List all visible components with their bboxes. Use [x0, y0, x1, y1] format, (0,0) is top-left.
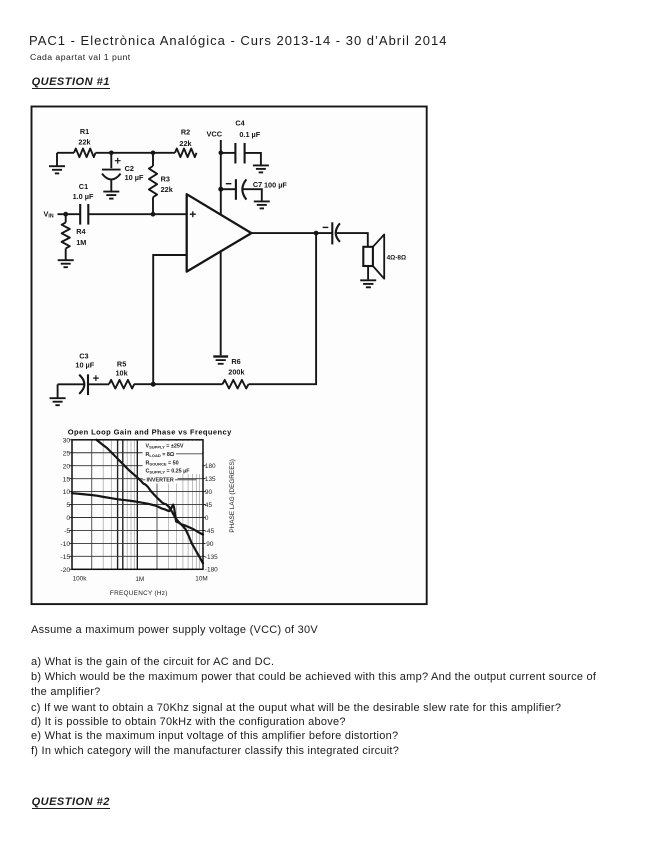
node J6 (feedback tap) [151, 382, 156, 387]
svg-text:135: 135 [205, 476, 216, 483]
svg-text:C4: C4 [235, 118, 245, 127]
svg-text:Open Loop Gain and Phase vs Fr: Open Loop Gain and Phase vs Frequency [68, 428, 232, 437]
svg-text:25: 25 [63, 450, 71, 457]
resistor R5 10k [109, 359, 134, 388]
phase axis labels [205, 463, 218, 574]
axis ticks [69, 440, 205, 570]
svg-text:RSOURCE = 50: RSOURCE = 50 [146, 460, 179, 466]
wire output [251, 232, 332, 234]
svg-text:-180: -180 [205, 567, 218, 574]
node J1 (R1/C2) [109, 151, 114, 156]
minor vertical gridlines [103, 440, 199, 570]
svg-text:R2: R2 [181, 128, 190, 137]
phase curve [72, 493, 203, 534]
svg-text:10: 10 [63, 489, 71, 496]
svg-text:100 µF: 100 µF [264, 180, 287, 189]
ground (R4) [58, 260, 74, 267]
wire VCC to op-amp top [220, 189, 222, 214]
ground (C4) [253, 165, 269, 172]
svg-text:C7: C7 [253, 180, 262, 189]
svg-text:10M: 10M [195, 575, 207, 582]
capacitor C1 1.0uF [73, 182, 94, 225]
capacitor C7 100uF [221, 179, 288, 201]
svg-text:10 µF: 10 µF [75, 360, 94, 369]
capacitor C4 0.1uF [221, 118, 261, 164]
ground (below C2) [103, 192, 119, 199]
svg-text:200k: 200k [228, 367, 245, 376]
wire top rail left [57, 152, 74, 154]
wire VCC rail down [220, 153, 222, 189]
svg-text:22k: 22k [179, 139, 192, 148]
resistor R6 200k [223, 357, 249, 389]
svg-text:4Ω-8Ω: 4Ω-8Ω [387, 254, 406, 261]
header title [29, 33, 447, 48]
body text [31, 624, 318, 636]
frequency axis labels [73, 575, 208, 583]
svg-text:0: 0 [66, 515, 70, 522]
node J5 (output) [314, 231, 319, 236]
speaker 4ohm-8ohm [363, 235, 406, 279]
resistor R1 [74, 127, 95, 157]
node J4 (+ input) [151, 212, 156, 217]
ground (C3) [50, 384, 66, 405]
svg-text:R1: R1 [80, 127, 89, 136]
svg-text:10k: 10k [116, 369, 129, 378]
svg-text:R4: R4 [76, 227, 86, 236]
svg-text:INVERTER: INVERTER [147, 478, 174, 484]
svg-text:R6: R6 [231, 357, 240, 366]
figure frame [32, 107, 427, 605]
wire op-amp ground pin [220, 252, 222, 356]
gain axis labels [60, 437, 70, 574]
svg-text:-20: -20 [60, 567, 70, 574]
svg-text:FREQUENCY (Hz): FREQUENCY (Hz) [110, 590, 168, 597]
capacitor C3 10uF [58, 351, 109, 395]
svg-text:100k: 100k [73, 575, 88, 582]
wire input row [88, 213, 186, 215]
svg-text:-10: -10 [60, 541, 70, 548]
resistor R3 22k [149, 153, 174, 214]
svg-text:22k: 22k [78, 137, 91, 146]
gain curve [96, 440, 203, 564]
capacitor output (coupling) [323, 222, 368, 247]
capacitor C2 10uF [102, 153, 144, 191]
svg-text:1M: 1M [135, 576, 144, 583]
ground (op-amp) [213, 357, 228, 364]
svg-text:-5: -5 [64, 528, 70, 535]
node J3 (bypass cap) [218, 187, 223, 192]
ground (C7) [254, 201, 270, 208]
svg-text:15: 15 [63, 476, 71, 483]
svg-text:-45: -45 [205, 528, 215, 535]
svg-text:5: 5 [66, 502, 70, 509]
wire feedback right [249, 233, 317, 384]
svg-text:1.0 µF: 1.0 µF [73, 192, 94, 201]
svg-text:20: 20 [63, 463, 71, 470]
svg-text:C1: C1 [79, 182, 88, 191]
ground (left of R1) [49, 153, 65, 174]
svg-text:R3: R3 [161, 175, 170, 184]
svg-text:1M: 1M [76, 238, 86, 247]
svg-text:VSUPPLY = ±25V: VSUPPLY = ±25V [146, 443, 184, 449]
ground (speaker) [360, 266, 376, 287]
svg-text:10 µF: 10 µF [125, 173, 144, 182]
node VIN [44, 210, 81, 220]
horizontal gridlines [72, 453, 203, 557]
svg-text:0: 0 [205, 515, 209, 522]
svg-text:180: 180 [205, 463, 216, 470]
plot frame [72, 440, 203, 570]
svg-text:-15: -15 [60, 554, 70, 561]
svg-text:PHASE LAG (DEGREES): PHASE LAG (DEGREES) [229, 459, 236, 533]
svg-text:CSUPPLY = 0.25 µF: CSUPPLY = 0.25 µF [146, 469, 191, 475]
svg-text:C2: C2 [125, 164, 134, 173]
svg-text:RLOAD = 8Ω: RLOAD = 8Ω [146, 452, 175, 458]
resistor R2 [175, 128, 197, 158]
svg-text:45: 45 [205, 502, 213, 509]
svg-text:90: 90 [206, 541, 214, 548]
legend box [143, 441, 203, 474]
svg-text:VCC: VCC [206, 129, 222, 138]
svg-text:C3: C3 [79, 351, 88, 360]
svg-text:R5: R5 [117, 359, 126, 368]
svg-text:-135: -135 [205, 554, 218, 561]
major gridline 1M [136, 440, 138, 570]
resistor R4 1M [62, 214, 87, 259]
op-amp U1 [187, 194, 252, 271]
wire bottom row middle [134, 383, 223, 385]
node VCC [206, 129, 223, 155]
svg-text:0.1 µF: 0.1 µF [239, 130, 260, 139]
svg-text:22k: 22k [161, 185, 174, 194]
wire top rail middle [96, 152, 176, 154]
node J2 (R3 top) [151, 151, 156, 156]
svg-text:90: 90 [205, 489, 213, 496]
wire inverting input [153, 255, 187, 384]
svg-text:30: 30 [63, 437, 71, 444]
